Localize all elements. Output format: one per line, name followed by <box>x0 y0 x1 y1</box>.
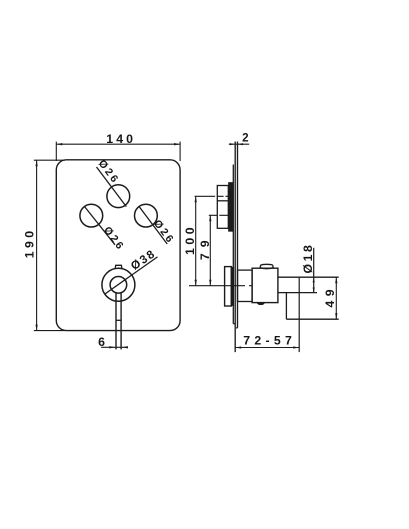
cartridge flange dark band <box>229 183 233 231</box>
svg-text:Ø26: Ø26 <box>151 218 177 247</box>
dim 140 arrow left <box>56 143 62 145</box>
knob cap on body top <box>260 264 273 268</box>
main centerline <box>189 285 252 287</box>
valve body block side view <box>252 268 278 302</box>
dim 49 arrow top <box>335 277 337 283</box>
centerline top port <box>195 195 233 197</box>
leader line C1 <box>97 167 127 207</box>
dim 6 line <box>101 346 128 348</box>
centerline side port <box>209 214 233 216</box>
drop pipe right edge / 72-57 extension <box>298 277 300 352</box>
dim 190 extension bottom <box>34 330 65 332</box>
svg-text:100: 100 <box>183 227 197 255</box>
side view plate cap bottom <box>233 323 235 325</box>
svg-text:72-57: 72-57 <box>243 334 292 348</box>
dim 140 extension left <box>55 142 57 161</box>
dim 140 line <box>56 143 180 145</box>
svg-text:190: 190 <box>23 231 37 259</box>
side view plate front face line <box>232 165 234 324</box>
dim 100 arrow bottom <box>195 280 197 286</box>
flange dark ring band <box>231 268 233 306</box>
dim 100 line <box>195 196 197 285</box>
svg-text:Ø18: Ø18 <box>301 245 315 274</box>
dim 6 arrow right <box>122 346 128 348</box>
leader line C2 <box>84 206 115 244</box>
side view wall line <box>237 142 239 328</box>
thermostat knob Ø38 outer <box>102 268 135 301</box>
side view plate back line / 72-57 extension <box>234 142 236 353</box>
dim 2 line <box>229 143 249 145</box>
dim 2 arrow right <box>238 143 244 145</box>
dim 140 extension right <box>179 142 181 161</box>
svg-text:Ø38: Ø38 <box>128 247 158 273</box>
svg-text:2: 2 <box>242 132 250 145</box>
pipe bottom edge <box>278 292 317 294</box>
wall plate front view <box>56 160 180 331</box>
lever joint tick <box>116 319 121 321</box>
dim 2 arrow left <box>230 143 236 145</box>
lever handle right edge <box>120 292 122 349</box>
dim 190 line <box>36 160 38 330</box>
dim 49 line <box>335 277 337 319</box>
knob top tab <box>115 265 122 268</box>
dim 49 arrow bottom <box>335 313 337 319</box>
leader line Ø38 <box>105 257 158 294</box>
dim Ø18 arrow up <box>313 277 315 282</box>
svg-text:6: 6 <box>98 335 105 349</box>
dim 72-57 line <box>235 347 299 349</box>
thermostat knob Ø38 inner <box>110 277 127 294</box>
knob C3 right Ø26 <box>135 204 158 227</box>
svg-text:Ø26: Ø26 <box>101 225 127 254</box>
bottom bump on body <box>257 303 264 305</box>
lever handle left edge <box>115 292 117 349</box>
knob cap rim line <box>260 268 274 269</box>
knob C1 top Ø26 <box>107 185 130 208</box>
dim 6 arrow left <box>109 346 115 348</box>
dim 79 arrow top <box>209 215 211 221</box>
svg-text:49: 49 <box>323 289 337 307</box>
cartridge body behind wall <box>217 186 228 229</box>
drop pipe left edge <box>285 293 287 320</box>
pipe top edge / dim 49 top extension <box>278 276 339 278</box>
dim 79 line <box>209 215 211 285</box>
dim 140 arrow right <box>174 143 180 145</box>
valve neck side view <box>238 270 253 301</box>
escutcheon flange side view <box>225 267 232 306</box>
side view wall cap bottom <box>236 327 237 329</box>
leader line C3 <box>139 206 167 244</box>
drop pipe bottom / dim 49 bottom extension <box>286 318 338 320</box>
cartridge divider <box>217 200 228 202</box>
dim 190 arrow bottom <box>35 325 37 331</box>
dim 190 arrow top <box>35 160 37 166</box>
dim Ø18 leader line <box>313 248 315 293</box>
svg-text:140: 140 <box>106 132 133 146</box>
dim Ø18 arrow down <box>313 288 315 293</box>
dim 79 arrow bottom <box>209 280 211 286</box>
dim 72-57 arrow right <box>293 346 299 348</box>
dim 100 arrow top <box>195 196 197 202</box>
knob C2 left Ø26 <box>80 204 103 227</box>
dim 190 extension top <box>34 159 65 161</box>
dim 72-57 arrow left <box>235 346 241 348</box>
